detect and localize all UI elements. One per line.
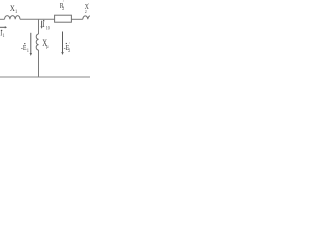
wire top-middle bbox=[20, 18, 54, 20]
svg-text:1: 1 bbox=[3, 33, 5, 39]
wire branch vertical upper bbox=[38, 19, 40, 34]
svg-text:2: 2 bbox=[62, 6, 65, 12]
svg-text:I: I bbox=[43, 20, 46, 29]
voltage arrow -E2' bbox=[61, 32, 71, 56]
inductor Xmu bbox=[36, 34, 49, 50]
current arrow I10 bbox=[41, 20, 51, 31]
svg-text:1: 1 bbox=[15, 10, 18, 16]
svg-text:2: 2 bbox=[85, 9, 87, 15]
svg-text:′: ′ bbox=[88, 2, 89, 8]
resistor R2' bbox=[55, 0, 72, 22]
svg-text:2: 2 bbox=[68, 47, 71, 53]
svg-text:-E: -E bbox=[21, 45, 27, 53]
svg-text:1: 1 bbox=[27, 47, 29, 53]
inductor X1 bbox=[5, 3, 21, 19]
svg-text:′: ′ bbox=[63, 0, 64, 5]
bottom wire bbox=[0, 76, 90, 78]
svg-text:′: ′ bbox=[69, 41, 70, 47]
wire branch vertical lower bbox=[38, 50, 40, 77]
wire top-left segment bbox=[0, 18, 5, 20]
wire top-right bbox=[72, 18, 83, 20]
svg-text:10: 10 bbox=[46, 25, 51, 31]
voltage arrow -E1 bbox=[21, 33, 32, 56]
current arrow I1 bbox=[0, 26, 7, 38]
inductor X2' bbox=[83, 2, 93, 20]
svg-text:μ: μ bbox=[46, 45, 49, 51]
